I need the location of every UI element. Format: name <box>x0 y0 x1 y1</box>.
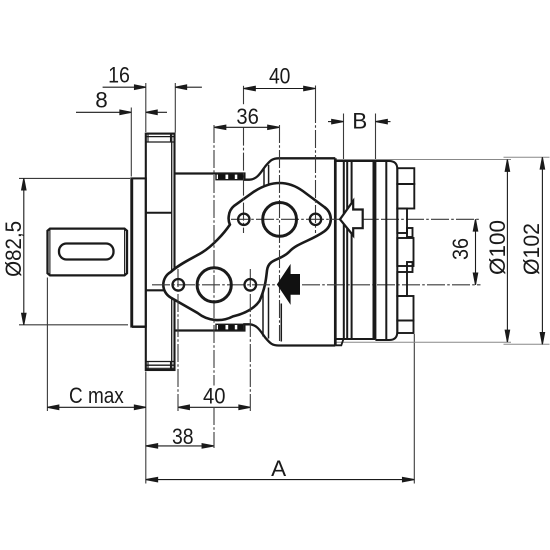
svg-text:A: A <box>271 456 286 481</box>
svg-text:38: 38 <box>172 424 194 449</box>
svg-text:36: 36 <box>448 238 473 260</box>
svg-text:Ø102: Ø102 <box>519 223 544 275</box>
svg-text:40: 40 <box>269 64 291 89</box>
svg-text:B: B <box>352 109 367 134</box>
svg-text:40: 40 <box>203 384 226 409</box>
svg-text:16: 16 <box>108 63 130 88</box>
svg-text:8: 8 <box>95 88 108 113</box>
svg-text:Ø82,5: Ø82,5 <box>1 221 26 277</box>
svg-text:36: 36 <box>236 104 259 129</box>
svg-text:C max: C max <box>69 383 124 408</box>
svg-text:Ø100: Ø100 <box>485 220 510 275</box>
